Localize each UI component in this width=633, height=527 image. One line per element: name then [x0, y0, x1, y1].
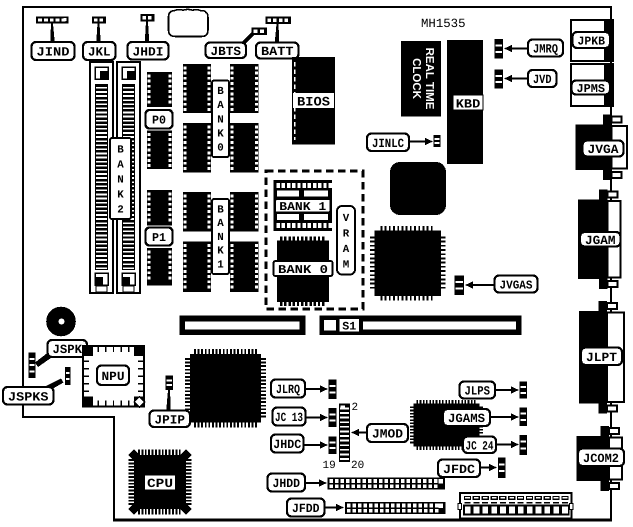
svg-text:JSPKS: JSPKS: [8, 390, 49, 404]
svg-text:2: 2: [352, 402, 359, 414]
real time clock U-RTC: [401, 41, 441, 117]
leader JSPKS: [43, 379, 64, 393]
label JPKB: [573, 32, 611, 48]
label JGAM: [580, 232, 621, 248]
DRAM chip BANK0 row1 right: [230, 64, 259, 113]
leader BATT: [275, 24, 280, 43]
connector JC24: [520, 435, 528, 455]
connector JINLC: [434, 135, 441, 147]
svg-text:BANK0: BANK0: [217, 86, 224, 154]
JIND pin1 dot: [64, 18, 67, 21]
label BATT: [256, 43, 299, 60]
label S1: [339, 318, 361, 333]
leader JLRQ: [303, 388, 322, 390]
video chip (rounded): [390, 162, 446, 215]
leader JMRQ: [510, 47, 529, 49]
connector JHDI: [141, 14, 155, 22]
svg-text:JPKB: JPKB: [578, 34, 606, 48]
svg-text:JC 13: JC 13: [275, 411, 303, 425]
leader JHDC: [302, 444, 322, 446]
leader JMOD: [357, 431, 369, 433]
svg-text:JINLC: JINLC: [372, 137, 404, 151]
unlabelled footprint outline: [169, 9, 209, 36]
svg-text:P1: P1: [152, 231, 166, 245]
expansion slot S1 left segment: [180, 316, 306, 336]
svg-text:JMRQ: JMRQ: [533, 43, 558, 57]
leader JKL: [96, 24, 101, 44]
svg-text:KBD: KBD: [456, 97, 481, 111]
game port JGAM: [578, 190, 621, 290]
label JLPS: [460, 382, 496, 399]
label JVGA: [583, 141, 624, 158]
connector JFDD header: [345, 502, 446, 514]
leader JVD: [510, 77, 529, 79]
leader JPIP: [166, 390, 171, 411]
connector JHDD header: [328, 478, 446, 490]
I/O controller U-QFP3: [410, 400, 483, 450]
connector BATT: [266, 17, 292, 25]
svg-text:S1: S1: [342, 320, 356, 333]
label JVD: [528, 70, 557, 87]
label JSPK: [48, 340, 88, 357]
label BANK2: [110, 138, 131, 219]
connector JMOD: [339, 404, 350, 463]
label JMOD: [367, 424, 408, 442]
label BANK0: [212, 81, 229, 158]
label JIND: [32, 42, 75, 60]
label JPMS: [572, 81, 611, 96]
svg-text:JMOD: JMOD: [372, 428, 404, 442]
label JPIP: [150, 411, 191, 428]
power connector: [458, 493, 573, 519]
svg-text:JKL: JKL: [88, 46, 111, 60]
speaker SPK: [46, 307, 76, 337]
connector JSPKS: [65, 367, 71, 385]
svg-text:JGAM: JGAM: [585, 234, 616, 248]
system controller U-QFP2: [185, 349, 266, 428]
serial port JCOM2: [577, 426, 623, 491]
chip column P1 lower: [147, 248, 172, 286]
leader JHDD: [303, 482, 321, 484]
label BANK 1: [275, 199, 331, 214]
keyboard port JPKB: [571, 20, 613, 61]
svg-text:JLPT: JLPT: [586, 351, 618, 365]
svg-text:JLRQ: JLRQ: [276, 383, 300, 397]
svg-text:BIOS: BIOS: [297, 94, 330, 109]
svg-text:JVGAS: JVGAS: [500, 278, 533, 292]
svg-text:BANK 1: BANK 1: [279, 200, 326, 214]
connector JSPK: [29, 353, 36, 379]
connector JPIP: [166, 376, 174, 391]
label JMRQ: [528, 40, 563, 57]
svg-text:BANK2: BANK2: [117, 144, 124, 216]
leader JHDI: [145, 22, 150, 44]
svg-text:JVGA: JVGA: [588, 143, 620, 157]
leader JFDC: [478, 466, 491, 468]
connector JLRQ: [329, 380, 337, 400]
DRAM chip BANK0 row1 left: [183, 64, 211, 113]
leader JVGAS: [471, 284, 496, 286]
svg-text:JVD: JVD: [533, 73, 552, 87]
label P1: [146, 228, 173, 246]
BIOS ROM: [292, 57, 335, 145]
label JGAMS: [443, 409, 490, 426]
svg-text:JPIP: JPIP: [155, 413, 186, 427]
connector JHDC: [329, 437, 337, 455]
label JVGAS: [495, 276, 538, 293]
svg-text:BATT: BATT: [261, 45, 294, 59]
leader JIND: [50, 24, 55, 44]
chip column P0 lower: [147, 131, 172, 170]
connector JIND: [36, 17, 69, 24]
DRAM chip BANK1 row1 right: [230, 192, 259, 232]
board bottom edge (thick): [113, 518, 612, 521]
connector JLPS: [520, 382, 528, 399]
svg-text:JGAMS: JGAMS: [448, 412, 485, 426]
label VRAM: [337, 206, 355, 275]
parallel port JLPT: [579, 301, 624, 414]
label JHDC: [271, 435, 304, 453]
label P0: [146, 110, 173, 129]
label JSPKS: [3, 387, 54, 405]
video memory dashed outline: [266, 171, 363, 309]
CPU: [128, 449, 191, 514]
mouse port JPMS: [571, 64, 613, 106]
SIMM socket BANK2-1: [90, 62, 113, 293]
label JCOM2: [578, 449, 624, 467]
VRAM chip BANK 0: [277, 237, 329, 306]
connector JKL: [92, 17, 106, 24]
svg-text:CPU: CPU: [147, 477, 173, 491]
DRAM chip BANK0 row2 left: [183, 123, 211, 173]
keyboard controller KBD: [447, 40, 483, 164]
leader JINLC: [407, 140, 427, 142]
label JFDC: [438, 460, 480, 478]
chipset U-QFP1: [370, 226, 446, 301]
expansion slot S1 right segment: [320, 316, 522, 336]
svg-text:JC 24: JC 24: [466, 439, 494, 453]
DRAM chip BANK1 row1 left: [183, 192, 211, 232]
leader JC13: [304, 416, 322, 418]
svg-text:JCOM2: JCOM2: [583, 452, 619, 466]
CPU label: [145, 476, 175, 492]
label JBTS: [206, 43, 247, 59]
label JINLC: [367, 134, 409, 152]
label JKL: [83, 42, 116, 60]
svg-text:JFDD: JFDD: [292, 502, 320, 516]
connector JBTS: [252, 28, 268, 36]
DRAM chip BANK0 row2 right: [230, 123, 259, 173]
label JFDD: [287, 499, 325, 517]
chip column P1 upper: [147, 190, 172, 226]
leader JGAMS: [488, 416, 513, 418]
chip column P0 upper: [147, 72, 172, 107]
VRAM socket BANK 1: [274, 180, 333, 231]
svg-text:JBTS: JBTS: [211, 45, 242, 59]
connector JC13: [329, 408, 337, 427]
leader JC24: [494, 443, 513, 445]
svg-text:P0: P0: [152, 114, 166, 128]
connector JVD: [495, 70, 504, 89]
label JHDI: [128, 42, 169, 60]
svg-text:JHDD: JHDD: [273, 477, 301, 491]
connector JMRQ: [495, 39, 504, 59]
svg-text:JPMS: JPMS: [577, 82, 606, 96]
svg-text:19: 19: [323, 460, 336, 472]
SIMM socket BANK2-2: [117, 62, 140, 293]
label BANK 0: [274, 261, 333, 277]
leader JSPK: [35, 353, 53, 368]
leader JFDD: [322, 506, 338, 508]
svg-text:BANK 0: BANK 0: [278, 263, 328, 277]
connector JFDC: [498, 458, 506, 479]
label NPU: [97, 366, 129, 386]
VGA port JVGA: [576, 115, 628, 181]
label JHDD: [268, 474, 306, 492]
label JLPT: [581, 348, 622, 366]
label JC13: [273, 408, 306, 426]
DRAM chip BANK1 row2 right: [230, 242, 259, 293]
NPU socket: [83, 346, 145, 407]
svg-text:JFDC: JFDC: [443, 463, 476, 477]
svg-text:MH1535: MH1535: [421, 17, 466, 31]
svg-text:JHDI: JHDI: [133, 45, 164, 59]
svg-text:JSPK: JSPK: [53, 343, 83, 357]
leader JLPS: [493, 389, 513, 391]
svg-text:JHDC: JHDC: [273, 438, 301, 452]
label JLRQ: [271, 380, 305, 398]
svg-text:JLPS: JLPS: [465, 385, 491, 399]
connector JVGAS: [455, 276, 465, 296]
label BANK1: [212, 199, 229, 274]
svg-text:JIND: JIND: [37, 46, 71, 60]
DRAM chip BANK1 row2 left: [183, 242, 211, 293]
svg-text:BANK1: BANK1: [217, 204, 224, 271]
label JC24: [463, 437, 496, 454]
connector JGAMS: [520, 408, 528, 427]
leader JBTS: [240, 33, 255, 44]
svg-text:NPU: NPU: [102, 370, 125, 384]
svg-text:20: 20: [351, 460, 364, 472]
